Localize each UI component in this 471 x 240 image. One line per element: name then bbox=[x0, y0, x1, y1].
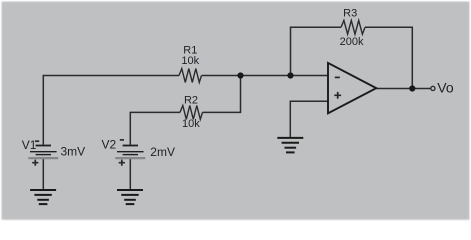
ground (V1) bbox=[30, 190, 56, 204]
svg-text:Vo: Vo bbox=[437, 80, 454, 96]
wire: R3 to output node bbox=[365, 27, 412, 88]
wire: R2 to summing node bbox=[203, 76, 241, 113]
svg-text:10k: 10k bbox=[181, 55, 199, 67]
wire: V2 top to R2 (riser + row) bbox=[130, 112, 180, 144]
battery V1 bbox=[28, 141, 58, 166]
wire: V1 top to R1 (riser + row) bbox=[43, 76, 179, 145]
wire: noninverting input to ground bbox=[290, 101, 328, 137]
svg-text:R2: R2 bbox=[184, 94, 198, 106]
junction: inverting input node bbox=[287, 72, 293, 78]
svg-text:200k: 200k bbox=[340, 36, 364, 48]
svg-text:3mV: 3mV bbox=[61, 144, 86, 158]
wire: R1 to op-amp inverting input bbox=[202, 75, 329, 77]
wire: op-amp output to terminal bbox=[376, 88, 431, 90]
battery V2 bbox=[115, 140, 145, 166]
ground (V2) bbox=[117, 190, 143, 204]
svg-text:V2: V2 bbox=[102, 137, 117, 151]
resistor R2 bbox=[180, 106, 203, 120]
wire: inverting node up to R3 bbox=[291, 27, 342, 75]
junction: R1/R2 summing node bbox=[237, 72, 243, 78]
svg-text:10k: 10k bbox=[182, 118, 200, 130]
wire: V2 bottom to ground bbox=[129, 158, 131, 190]
junction: output node bbox=[409, 85, 415, 91]
svg-text:R3: R3 bbox=[343, 8, 357, 20]
op-amp U1 bbox=[328, 63, 376, 113]
ground (op-amp noninverting input) bbox=[277, 138, 303, 153]
resistor R1 bbox=[179, 69, 202, 83]
svg-text:2mV: 2mV bbox=[150, 145, 175, 159]
wire: V1 bottom to ground bbox=[42, 158, 44, 190]
svg-text:V1: V1 bbox=[22, 138, 37, 152]
terminal Vo (open circle) bbox=[431, 86, 435, 90]
resistor R3 bbox=[341, 20, 365, 34]
